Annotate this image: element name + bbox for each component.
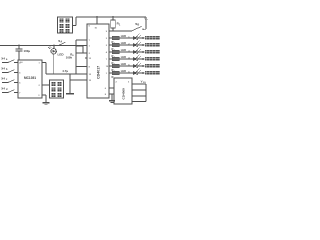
svg-text:LED: LED xyxy=(121,62,126,66)
svg-text:X4: X4 xyxy=(1,77,5,81)
svg-text:CD4017: CD4017 xyxy=(97,66,101,79)
svg-text:LED: LED xyxy=(121,48,126,52)
svg-text:MC1391: MC1391 xyxy=(24,76,36,80)
svg-text:4.7μ: 4.7μ xyxy=(62,69,68,73)
svg-text:LED: LED xyxy=(58,53,65,57)
svg-text:X4: X4 xyxy=(1,87,5,91)
svg-text:X4: X4 xyxy=(1,57,5,61)
svg-text:LED: LED xyxy=(121,34,126,38)
svg-text:LED: LED xyxy=(121,69,126,73)
svg-text:CD4069: CD4069 xyxy=(122,88,126,100)
svg-text:100μ: 100μ xyxy=(24,49,31,53)
svg-text:LED: LED xyxy=(121,55,126,59)
svg-text:100k: 100k xyxy=(66,56,73,60)
svg-text:X4: X4 xyxy=(1,67,5,71)
svg-text:LED: LED xyxy=(121,41,126,45)
